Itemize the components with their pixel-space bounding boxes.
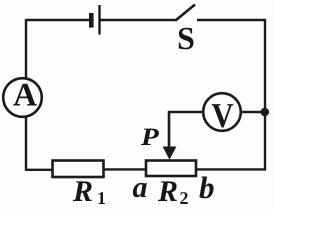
wire voltmeter to right wire <box>242 111 267 113</box>
label R1 subscript 1 <box>98 192 105 204</box>
label b (right terminal of R2) <box>199 177 213 199</box>
rheostat R2 box <box>146 161 196 177</box>
resistor R1 box <box>53 161 104 178</box>
wire R1 to R2 <box>104 168 147 170</box>
wire switch to top-right corner and down right side <box>197 20 265 171</box>
voltmeter label V <box>212 104 234 127</box>
ammeter circle <box>3 78 42 117</box>
wire left side lower (ammeter to bottom-left corner) <box>26 117 53 170</box>
junction node dot <box>261 108 270 117</box>
switch S lever (open) <box>176 5 196 21</box>
wire wiper corner to voltmeter <box>168 111 202 113</box>
wire battery to switch <box>101 19 177 21</box>
wire R2 to bottom-right corner <box>196 168 266 170</box>
wire top-left horizontal (battery left lead) <box>26 19 89 21</box>
wire left side upper (to ammeter) <box>25 19 27 79</box>
battery cell: long thin positive plate <box>98 5 100 35</box>
slider label P <box>141 129 159 145</box>
battery cell: short thick negative plate <box>89 13 94 28</box>
voltmeter circle <box>203 93 241 131</box>
label a (left terminal of R2) <box>133 183 147 197</box>
switch label S <box>179 28 194 50</box>
label R2 subscript 2 <box>180 192 187 204</box>
label R2 letter R <box>158 181 177 201</box>
label R1 letter R <box>73 181 92 201</box>
slider wire from voltmeter branch down to wiper <box>168 113 171 148</box>
slider P arrowhead (wiper) <box>163 147 177 160</box>
ammeter label A <box>13 84 36 106</box>
